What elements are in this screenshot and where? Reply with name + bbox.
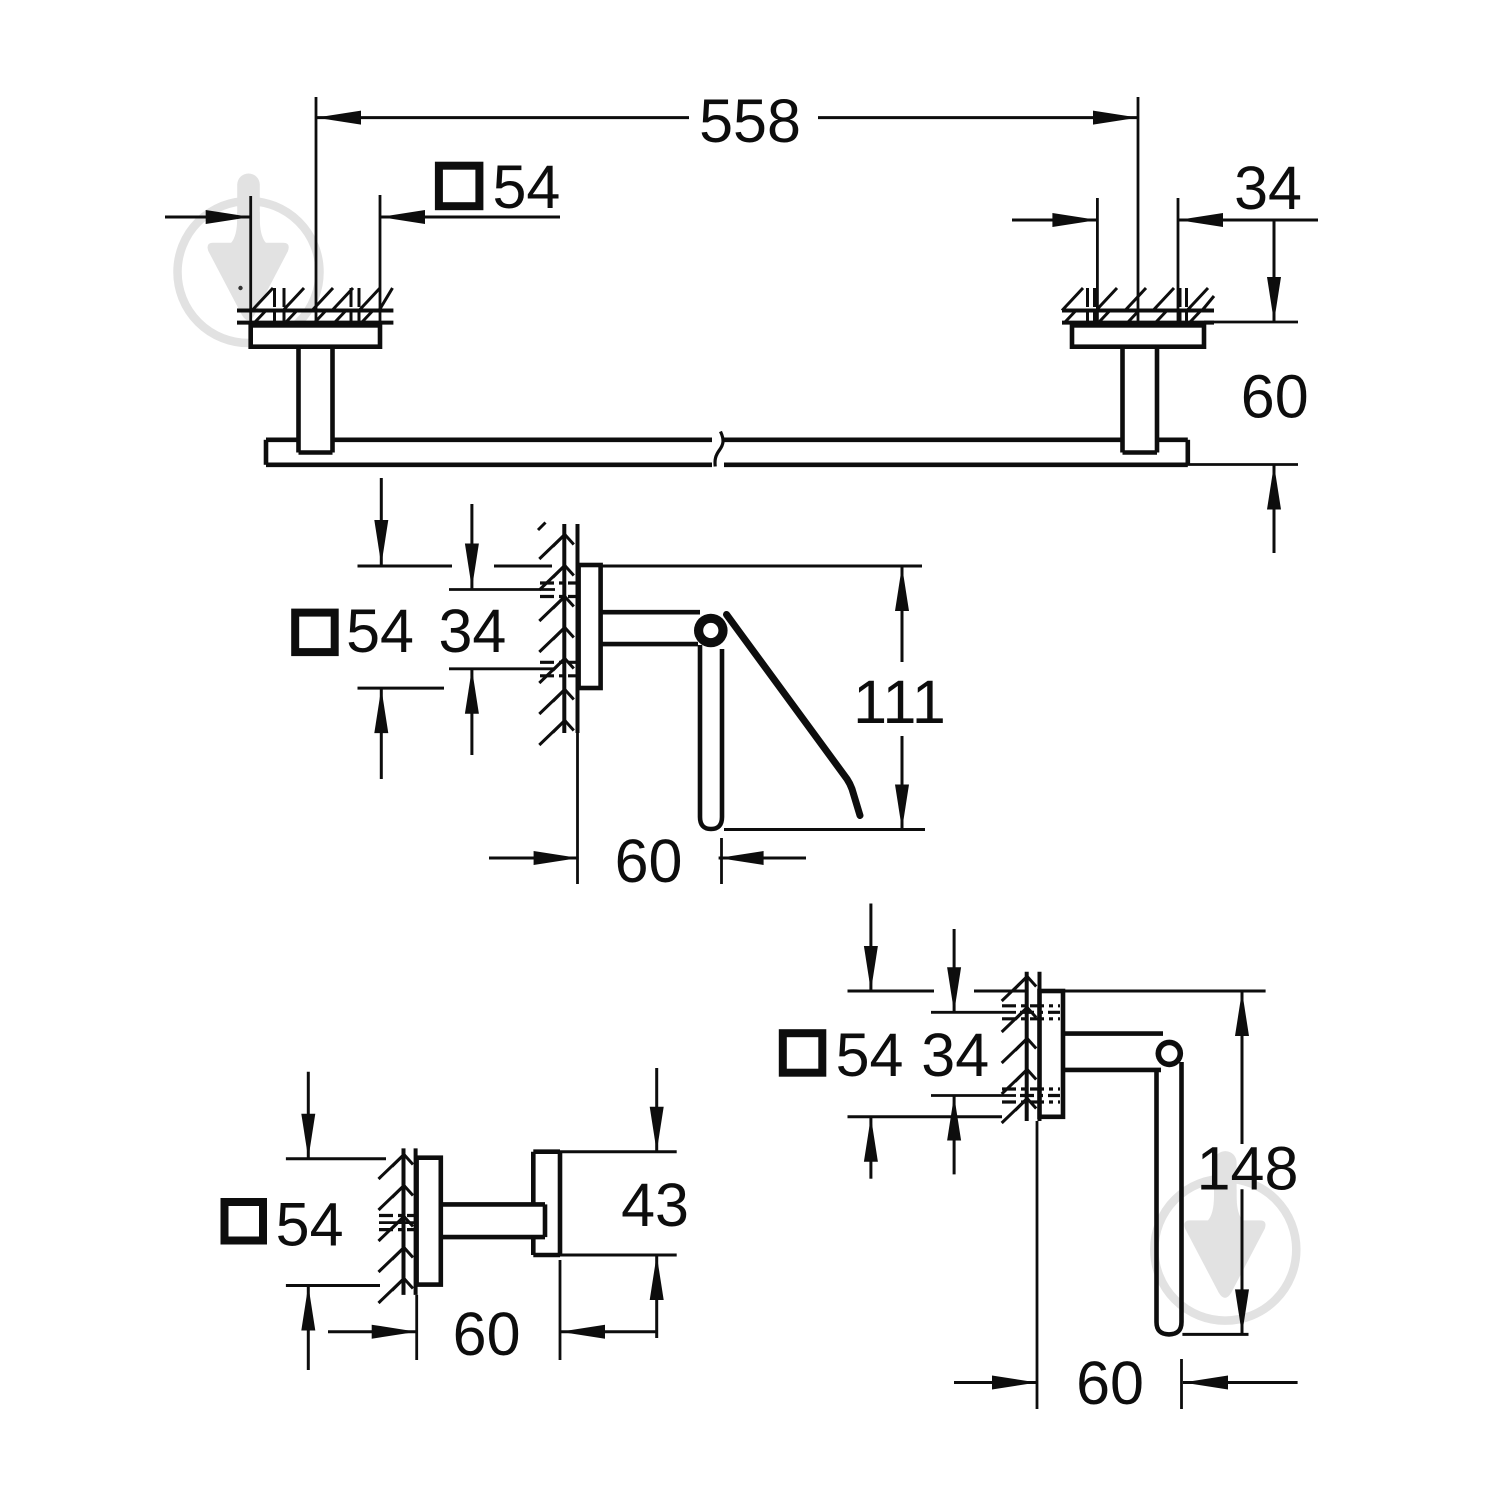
dimension 34 (hole spacing, spare holder) <box>953 929 956 1012</box>
svg-text:54: 54 <box>836 1021 904 1089</box>
svg-text:148: 148 <box>1197 1134 1299 1202</box>
towel bar rail <box>266 437 299 442</box>
hinge pin (spare holder) <box>1156 1040 1184 1068</box>
dimension 34 (hole offset, top right) <box>1012 219 1097 222</box>
extension lines, top drawing <box>315 97 318 322</box>
rosette plate (middle) <box>579 565 601 688</box>
svg-text:60: 60 <box>615 827 683 895</box>
dimension square 54 (rosette, spare holder) <box>869 904 872 992</box>
svg-text:34: 34 <box>1234 154 1302 222</box>
dimension 111 (height, middle) <box>901 566 904 662</box>
wall hatch (middle drawing) <box>539 534 566 560</box>
watermark logo pin stem <box>237 174 260 236</box>
wall (right segment, top drawing) <box>1062 309 1214 313</box>
watermark logo pin triangle <box>1184 1220 1265 1297</box>
wall hatch (right segment) <box>1062 288 1083 311</box>
stray dot artifact <box>238 286 242 290</box>
mounting hole centerlines (hook) <box>379 1221 416 1224</box>
watermark logo pin triangle <box>208 243 289 320</box>
svg-text:54: 54 <box>492 153 560 221</box>
holder arm (spare holder) <box>1063 1031 1163 1036</box>
dimension 34 (hole spacing, middle) <box>470 504 473 589</box>
hook head block <box>531 1152 536 1205</box>
wall (hook drawing) <box>402 1148 406 1295</box>
hinge pin (middle) <box>694 614 728 648</box>
wall hatch (hook drawing) <box>379 1154 406 1180</box>
svg-text:60: 60 <box>453 1300 521 1368</box>
dimension 60 (depth, spare holder) <box>954 1381 1037 1384</box>
dimension square 54 (rosette, middle) <box>380 478 383 565</box>
extension lines (spare holder) <box>848 990 935 993</box>
svg-text:54: 54 <box>346 597 414 665</box>
wall (spare holder drawing) <box>1025 972 1029 1121</box>
svg-text:34: 34 <box>921 1021 989 1089</box>
right rosette plate 54x54 <box>1072 325 1204 346</box>
watermark logo circle <box>178 201 320 343</box>
left post <box>296 347 301 453</box>
dimension 60 (wall to bar, top right) <box>1204 321 1298 324</box>
dimension 558 (bar length) <box>316 116 689 119</box>
dimension 43 (head height, hook) <box>655 1068 658 1152</box>
watermark logo pin stem <box>1214 1151 1237 1213</box>
extension lines (middle) <box>358 565 453 568</box>
svg-text:34: 34 <box>438 597 506 665</box>
dimension square 54 (rosette width, top) <box>165 216 251 219</box>
wall hatch (left segment) <box>252 288 273 311</box>
dimension 148 (height, spare holder) <box>1241 991 1244 1144</box>
svg-text:54: 54 <box>276 1191 344 1259</box>
left rosette plate 54x54 <box>251 325 380 346</box>
rosette plate (hook) <box>417 1158 441 1285</box>
svg-text:43: 43 <box>621 1171 689 1239</box>
wall (middle drawing) <box>562 524 566 733</box>
svg-text:558: 558 <box>699 87 801 155</box>
watermark logo circle <box>1154 1179 1296 1321</box>
holder arm (middle) <box>601 610 700 615</box>
mounting hole centerlines (middle) <box>449 588 555 591</box>
svg-text:60: 60 <box>1076 1349 1144 1417</box>
dimension square 54 (rosette, hook) <box>307 1072 310 1159</box>
dimension 60 (depth, middle) <box>489 857 579 860</box>
cover flap (middle) <box>727 615 861 816</box>
right post <box>1120 347 1125 453</box>
extension lines (hook) <box>286 1157 386 1160</box>
svg-text:60: 60 <box>1241 363 1309 431</box>
mounting hole centerlines (spare holder) <box>931 1011 1016 1014</box>
dimension 60 (depth, hook) <box>328 1330 417 1333</box>
hook arm <box>441 1202 545 1207</box>
rosette plate (spare holder) <box>1040 991 1064 1117</box>
svg-text:111: 111 <box>853 668 946 736</box>
wall hatch (spare holder) <box>1002 976 1028 1002</box>
roll holder bar (middle) <box>700 645 722 829</box>
wall (left segment, top drawing) <box>237 309 393 313</box>
rail break mark <box>715 432 723 467</box>
roll holder bar (spare holder) <box>1157 1062 1182 1334</box>
